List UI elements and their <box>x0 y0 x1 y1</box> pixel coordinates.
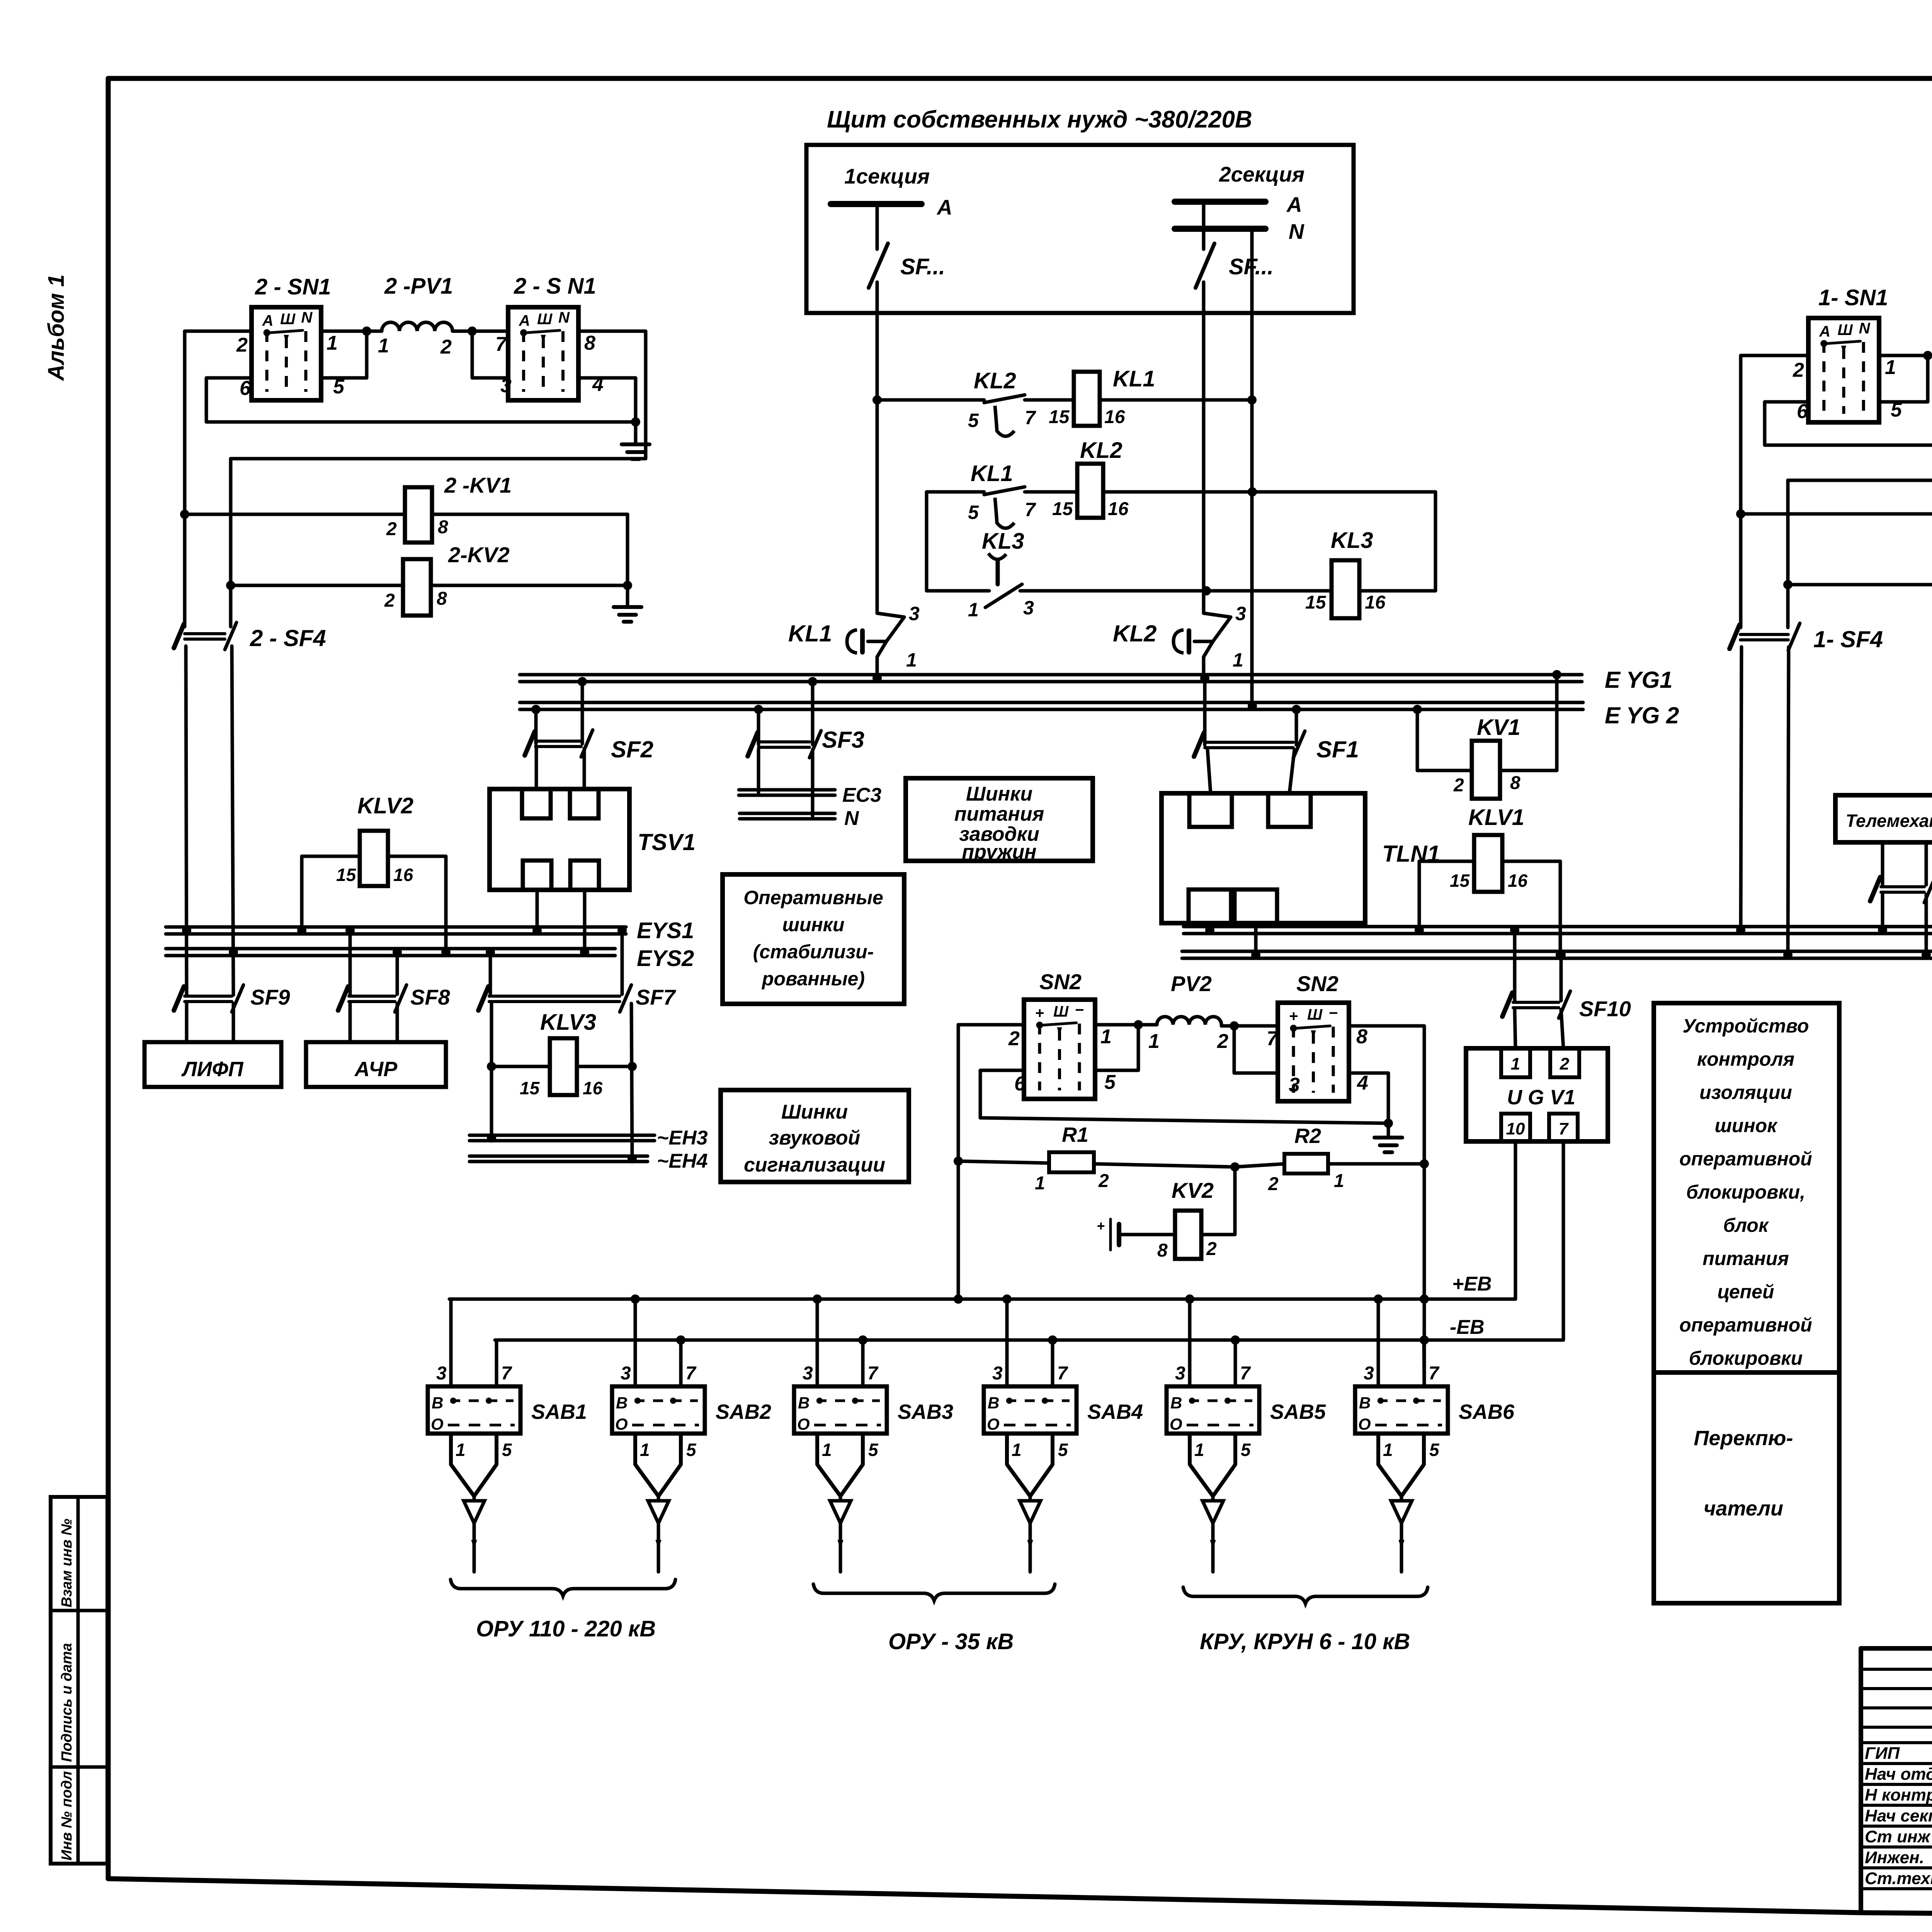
resistor R1 <box>958 1123 1235 1194</box>
node TSV1/EYS2 <box>580 947 589 957</box>
node TLN1/EYG4 <box>1251 950 1260 959</box>
resistor R2 <box>1235 1124 1424 1194</box>
brace ОРУ-35кВ <box>813 1584 1055 1654</box>
wire SAB2 pin7 feeder <box>679 1340 683 1386</box>
svg-text:16: 16 <box>1104 407 1125 427</box>
svg-text:5: 5 <box>502 1440 512 1460</box>
node SF1/EYG2 <box>1292 705 1301 714</box>
breaker SF7 <box>478 930 677 1012</box>
funnel SAB5 <box>1190 1434 1251 1572</box>
svg-text:звуковой: звуковой <box>769 1127 861 1149</box>
bus EYS2 <box>166 946 694 971</box>
wire SN2 pin2 left <box>958 1023 1024 1027</box>
wire left vertical A below SF4 <box>186 646 187 995</box>
svg-text:8: 8 <box>1356 1026 1367 1048</box>
svg-text:SF10: SF10 <box>1579 997 1631 1021</box>
funnel SAB2 <box>635 1434 697 1572</box>
svg-text:5: 5 <box>868 1440 879 1460</box>
wire left vertical B (x597) <box>229 459 233 627</box>
svg-text:+ЕВ: +ЕВ <box>1452 1273 1492 1295</box>
svg-text:Оперативные: Оперативные <box>743 887 883 908</box>
node KLV2/EYS2 <box>441 947 451 957</box>
svg-text:15: 15 <box>1052 499 1073 519</box>
note box Устройство контроля изоляции шинок оперативной блокировки <box>1654 1003 1839 1372</box>
svg-text:−: − <box>1329 1005 1338 1022</box>
svg-text:питания: питания <box>954 803 1044 825</box>
svg-text:1: 1 <box>327 332 338 354</box>
svg-text:А: А <box>519 312 530 329</box>
wire SN2 pin1 to coil <box>1095 1023 1157 1027</box>
wire SAB3 pin7 feeder <box>861 1340 865 1386</box>
load box Телемеханика <box>1835 795 1932 842</box>
svg-text:−: − <box>1075 1002 1084 1019</box>
node SF10/EYG3 <box>1510 925 1519 935</box>
svg-text:N: N <box>1289 219 1304 243</box>
svg-text:2: 2 <box>1217 1030 1228 1053</box>
wire pin2 left <box>185 330 252 333</box>
svg-text:1: 1 <box>1334 1171 1344 1191</box>
switch SAB6 <box>1355 1363 1515 1434</box>
cell symbol at KV2 <box>1097 1218 1119 1250</box>
node SN2 ground loop <box>1384 1119 1393 1128</box>
funnel SAB3 <box>817 1434 879 1572</box>
svg-text:О: О <box>797 1415 810 1433</box>
svg-text:2: 2 <box>236 334 248 356</box>
wire SAB5 pin3 feeder <box>1188 1299 1192 1386</box>
wire SF11 to EYG4 <box>1925 895 1928 955</box>
svg-text:SF1: SF1 <box>1316 736 1359 762</box>
svg-text:шинок: шинок <box>1714 1115 1778 1136</box>
svg-text:1: 1 <box>1012 1440 1022 1460</box>
svg-text:N: N <box>844 807 859 830</box>
wire pin3 loop <box>472 333 508 378</box>
svg-text:3: 3 <box>500 374 512 397</box>
svg-text:шинки: шинки <box>782 914 844 935</box>
svg-text:блокировки: блокировки <box>1689 1347 1803 1369</box>
svg-text:Ст инж: Ст инж <box>1865 1827 1931 1846</box>
wire pin1 to coil <box>321 330 382 333</box>
wire SN2 pin6/pin4 bottom loop <box>980 1070 1388 1123</box>
svg-text:Ш: Ш <box>537 311 553 328</box>
node -EB/SAB2 <box>676 1335 685 1345</box>
svg-text:EYS2: EYS2 <box>637 946 694 971</box>
svg-text:рованные): рованные) <box>761 968 865 990</box>
svg-text:3: 3 <box>909 603 920 624</box>
brace ОРУ 110-220кВ <box>451 1580 675 1641</box>
svg-text:1: 1 <box>1885 356 1896 379</box>
svg-text:SN2: SN2 <box>1296 971 1338 996</box>
wire pin8 loop <box>231 331 646 459</box>
node SF11/EYG4 <box>1922 950 1931 959</box>
wires SF8 to АЧР <box>349 1003 352 1042</box>
svg-text:Нач сект.: Нач сект. <box>1865 1806 1932 1825</box>
node KLV3/EH3 <box>487 1133 496 1143</box>
svg-text:3: 3 <box>1289 1074 1300 1096</box>
svg-text:Щит собственных нужд ~380/2: Щит собственных нужд ~380/220В <box>827 106 1252 133</box>
wire SAB1 pin7 feeder <box>495 1340 498 1386</box>
svg-text:Ш: Ш <box>1307 1006 1323 1023</box>
switch SAB5 <box>1167 1363 1326 1434</box>
svg-text:5: 5 <box>1891 399 1902 421</box>
svg-text:SF...: SF... <box>900 254 945 279</box>
wire coil to pin7 <box>452 330 508 333</box>
svg-text:7: 7 <box>1559 1119 1569 1138</box>
node +EB/SAB4 <box>1002 1294 1012 1304</box>
svg-text:SAB3: SAB3 <box>898 1400 953 1423</box>
svg-text:оперативной: оперативной <box>1679 1148 1812 1170</box>
svg-text:A: A <box>1286 192 1302 216</box>
relay 1-KV1 <box>1741 470 1932 585</box>
funnel SAB4 <box>1007 1434 1068 1572</box>
svg-text:4: 4 <box>1357 1072 1368 1094</box>
node SF2/EYG2 <box>531 705 541 714</box>
svg-text:KV1: KV1 <box>1477 715 1520 740</box>
wire left vertical B below SF4 <box>232 646 233 995</box>
svg-text:7: 7 <box>1057 1363 1068 1384</box>
svg-text:(стабилизи-: (стабилизи- <box>753 941 874 963</box>
power unit UGV1 <box>1466 1010 1608 1141</box>
wire UGV1 pin7 down <box>1562 1141 1565 1340</box>
svg-text:KL2: KL2 <box>974 368 1016 393</box>
wire pin6/pin4 bottom loop <box>206 378 636 422</box>
svg-text:О: О <box>615 1415 628 1433</box>
title block roles and names <box>1865 1744 1932 1888</box>
wire 1SN1 pin2 left <box>1741 354 1808 357</box>
svg-text:1: 1 <box>640 1440 650 1460</box>
bus ЕН4 <box>469 1150 708 1172</box>
svg-text:2: 2 <box>1098 1171 1109 1191</box>
node 1PV1 left <box>1923 351 1932 360</box>
svg-text:Ш: Ш <box>1053 1003 1069 1020</box>
node +EB/SAB6 <box>1374 1294 1383 1304</box>
wire SAB5 pin7 feeder <box>1234 1340 1237 1386</box>
svg-text:В: В <box>432 1394 443 1412</box>
bus EC3 <box>739 784 881 806</box>
node PV2 right <box>1230 1021 1239 1031</box>
svg-text:ОРУ 110 - 220 кВ: ОРУ 110 - 220 кВ <box>476 1616 656 1641</box>
svg-text:3: 3 <box>992 1363 1003 1384</box>
node SF9/EYS2 <box>229 947 238 957</box>
svg-text:2: 2 <box>386 519 397 539</box>
node -EB/SAB6 <box>1420 1335 1429 1345</box>
wire left vertical A (x478) <box>183 331 187 627</box>
svg-text:15: 15 <box>336 865 357 885</box>
row3 wire <box>927 589 1435 593</box>
selector plug SN2 right <box>1278 971 1349 1101</box>
svg-text:~ЕН3: ~ЕН3 <box>657 1127 708 1149</box>
svg-text:Ст.техн: Ст.техн <box>1865 1869 1932 1888</box>
pin labels SN2 assembly <box>1008 1026 1368 1096</box>
svg-text:15: 15 <box>1305 592 1327 613</box>
load box АЧР <box>306 1042 446 1087</box>
breaker SF... (1секция) <box>869 204 945 313</box>
svg-text:2 -PV1: 2 -PV1 <box>384 274 453 299</box>
node SF2/EYG1 <box>578 677 587 686</box>
svg-text:3: 3 <box>1175 1363 1185 1384</box>
svg-text:~ЕН4: ~ЕН4 <box>657 1150 708 1172</box>
relay KV2 <box>1119 1167 1235 1261</box>
node SF8/EYS1 <box>345 926 355 935</box>
svg-text:2 - SN1: 2 - SN1 <box>255 274 331 299</box>
svg-text:А: А <box>1819 323 1830 340</box>
svg-text:SF2: SF2 <box>611 736 653 762</box>
svg-text:ЛИФП: ЛИФП <box>181 1058 244 1081</box>
svg-text:SF8: SF8 <box>410 985 451 1009</box>
svg-text:2секция: 2секция <box>1219 162 1304 186</box>
wire SAB4 pin3 feeder <box>1005 1299 1009 1386</box>
svg-text:SF7: SF7 <box>636 985 677 1009</box>
node SF11/EYG3 <box>1878 925 1887 935</box>
svg-text:SAB5: SAB5 <box>1270 1400 1326 1423</box>
pin labels right SN assembly <box>1793 356 1932 423</box>
wire -EB <box>495 1316 1563 1340</box>
node +EB/R2vert <box>1420 1294 1429 1304</box>
pin labels left SN assembly <box>236 332 604 400</box>
svg-text:2: 2 <box>1008 1027 1020 1050</box>
svg-text:Нач отд: Нач отд <box>1865 1765 1932 1784</box>
node 1-SF4/EYG3 <box>1736 925 1745 935</box>
node 1-SF4/EYG4 <box>1783 950 1793 959</box>
svg-text:E YG 2: E YG 2 <box>1605 702 1679 728</box>
svg-text:16: 16 <box>1365 592 1386 613</box>
svg-text:3: 3 <box>803 1363 813 1384</box>
svg-text:KV2: KV2 <box>1172 1178 1214 1202</box>
svg-text:1: 1 <box>1148 1030 1160 1053</box>
svg-text:1: 1 <box>1233 649 1243 671</box>
svg-text:6: 6 <box>1797 400 1808 423</box>
node -EB/SAB4 <box>1048 1335 1057 1345</box>
node -EB/SAB3 <box>858 1335 867 1345</box>
svg-text:сигнализации: сигнализации <box>744 1154 885 1176</box>
svg-text:7: 7 <box>1267 1027 1279 1050</box>
node PV2 left <box>1134 1020 1143 1029</box>
node N/row1 <box>1247 395 1257 405</box>
wires SF9 to ЛИФП <box>185 1003 189 1042</box>
svg-text:5: 5 <box>1429 1440 1440 1460</box>
inductor 2-PV1 <box>382 274 453 331</box>
svg-text:8: 8 <box>437 588 447 609</box>
svg-text:2: 2 <box>1793 359 1804 381</box>
svg-text:Ш: Ш <box>1838 321 1853 338</box>
svg-text:-ЕВ: -ЕВ <box>1450 1316 1485 1338</box>
svg-text:KL2: KL2 <box>1113 621 1156 646</box>
relay KLV3 <box>487 1003 637 1159</box>
relay KLV2 <box>302 793 446 952</box>
node KLV3/EH4 <box>628 1154 637 1163</box>
svg-text:3: 3 <box>1364 1363 1374 1384</box>
bus 2секция A <box>1175 162 1304 216</box>
wire +EB <box>449 1273 1515 1299</box>
svg-text:5: 5 <box>1241 1440 1251 1460</box>
svg-text:7: 7 <box>1429 1363 1440 1384</box>
svg-text:1: 1 <box>906 649 917 671</box>
svg-text:5: 5 <box>968 502 979 523</box>
svg-text:R1: R1 <box>1062 1123 1088 1146</box>
svg-text:15: 15 <box>1450 871 1470 891</box>
svg-text:5: 5 <box>1104 1071 1116 1094</box>
svg-text:Инв № подл: Инв № подл <box>59 1771 75 1861</box>
svg-text:пружин: пружин <box>962 841 1036 863</box>
svg-text:7: 7 <box>867 1363 879 1384</box>
ground 2-KV loop <box>614 585 641 622</box>
node B/2-KV2 row <box>226 581 235 590</box>
svg-text:8: 8 <box>1510 773 1520 793</box>
svg-text:Н контр.: Н контр. <box>1865 1786 1932 1804</box>
load box ЛИФП <box>145 1042 281 1087</box>
note box Шинки звуковой сигнализации <box>721 1090 909 1182</box>
node SF7/EYS1 <box>617 926 627 935</box>
contact KL2 (5-7) <box>968 368 1036 436</box>
svg-text:7: 7 <box>495 333 507 355</box>
selector plug 2-SN1 left <box>252 274 331 400</box>
svg-text:Ш: Ш <box>280 311 296 328</box>
node +EB/SAB5 <box>1185 1294 1194 1304</box>
relay 2-KV2 <box>231 543 628 616</box>
svg-text:1- SF4: 1- SF4 <box>1813 626 1883 652</box>
breaker 2-SF4 <box>174 622 326 651</box>
svg-text:Перекпю-: Перекпю- <box>1694 1427 1793 1450</box>
node -EB/SAB5 <box>1231 1335 1240 1345</box>
wire SN2 pin8 right <box>1349 1026 1424 1164</box>
wire SF3 to EC3 <box>757 750 760 793</box>
node feeder1/row1 <box>872 395 882 405</box>
svg-text:KL3: KL3 <box>1331 528 1373 553</box>
svg-text:В: В <box>1170 1394 1182 1412</box>
svg-text:КРУ, КРУН 6 - 10 кВ: КРУ, КРУН 6 - 10 кВ <box>1200 1629 1410 1654</box>
ground left assembly <box>622 422 650 459</box>
wire SAB3 pin3 feeder <box>816 1299 819 1386</box>
svg-text:6: 6 <box>1014 1073 1026 1095</box>
node N/EYG2 <box>1248 701 1257 711</box>
svg-text:2: 2 <box>1268 1174 1279 1194</box>
svg-text:1: 1 <box>1100 1026 1112 1048</box>
svg-text:EYS1: EYS1 <box>637 918 694 943</box>
breaker SF10 <box>1502 930 1631 1021</box>
svg-text:изоляции: изоляции <box>1699 1082 1792 1103</box>
wire right vertical A (x4505) <box>1739 355 1743 628</box>
node A/2-KV1 row <box>180 510 189 519</box>
node +EB/SAB3 <box>813 1294 822 1304</box>
wire TLN1 to EYG4 <box>1254 923 1258 955</box>
svg-text:KL1: KL1 <box>971 461 1013 486</box>
relay 2-KV1 <box>185 473 628 585</box>
svg-text:1: 1 <box>822 1440 832 1460</box>
node TSV1/EYS1 <box>532 926 542 935</box>
svg-text:1: 1 <box>378 335 389 357</box>
svg-text:Альбом 1: Альбом 1 <box>44 274 69 381</box>
svg-text:Телемеханика: Телемеханика <box>1846 811 1932 831</box>
wire right vertical B (x4627) <box>1786 480 1790 628</box>
row1 wire <box>877 398 1252 402</box>
relay coil KL3 <box>1305 528 1386 618</box>
svg-text:1: 1 <box>456 1440 466 1460</box>
wire feeder N down <box>1250 229 1254 709</box>
title block grid <box>1861 1648 1932 1916</box>
selector plug 1-SN1 left <box>1808 285 1888 422</box>
svg-text:2-KV2: 2-KV2 <box>448 543 510 567</box>
wire SAB2 pin3 feeder <box>634 1299 637 1386</box>
svg-text:1секция: 1секция <box>844 164 930 188</box>
relay 1-KV2 <box>1788 545 1932 613</box>
bus EYG1 <box>520 667 1673 693</box>
svg-text:R2: R2 <box>1294 1124 1321 1148</box>
selector plug SN2 left <box>1024 969 1095 1099</box>
node SF8/EYS2 <box>393 947 402 957</box>
bus EYS1 <box>166 918 694 943</box>
svg-text:SAB1: SAB1 <box>531 1400 587 1423</box>
svg-text:А: А <box>262 312 274 329</box>
node KL1/EYG1 <box>872 673 882 683</box>
svg-text:N: N <box>558 309 570 326</box>
svg-text:2: 2 <box>440 336 452 358</box>
svg-text:2 - SF4: 2 - SF4 <box>250 625 326 651</box>
wire feeder 2секция phase down <box>1202 313 1206 613</box>
wire 1SN1 pin6/pin4 bottom loop <box>1765 402 1932 445</box>
relay KLV1 <box>1419 805 1560 955</box>
switch SAB3 <box>794 1363 953 1434</box>
wire 1SN1 pin1 to coil <box>1879 354 1932 357</box>
brace КРУ КРУН 6-10кВ <box>1183 1587 1428 1654</box>
svg-text:+: + <box>1035 1005 1044 1022</box>
svg-text:15: 15 <box>1049 407 1070 427</box>
bus EYG4 <box>1182 951 1932 990</box>
svg-text:PV2: PV2 <box>1171 971 1212 996</box>
node KLV1/EYG3 <box>1415 925 1424 935</box>
svg-text:8: 8 <box>584 332 595 354</box>
selector plug 2-SN1 right <box>508 274 596 400</box>
node row3 / KL2-feeder <box>1202 586 1211 595</box>
svg-text:питания: питания <box>1702 1248 1789 1269</box>
svg-text:SAB6: SAB6 <box>1459 1400 1515 1423</box>
svg-text:KL1: KL1 <box>1113 366 1155 391</box>
svg-text:ОРУ - 35 кВ: ОРУ - 35 кВ <box>888 1629 1014 1654</box>
contact KL1 main <box>788 603 920 678</box>
bus EYG3 <box>1184 926 1932 951</box>
svg-text:1- SN1: 1- SN1 <box>1818 285 1888 310</box>
svg-text:KL3: KL3 <box>982 529 1024 554</box>
wire 1SN1 pin8 loop <box>1788 355 1932 480</box>
svg-text:A: A <box>936 195 952 219</box>
svg-text:16: 16 <box>393 865 413 885</box>
node KL2/EYG1 <box>1200 673 1209 683</box>
svg-text:N: N <box>301 309 313 326</box>
node +EB/SN2 <box>954 1294 963 1304</box>
relay KV1 <box>1417 675 1557 799</box>
contact KL1 (5-7) <box>968 461 1036 528</box>
note box Шинки питания заводки пружин <box>906 778 1093 863</box>
svg-text:16: 16 <box>1508 871 1528 891</box>
svg-text:цепей: цепей <box>1717 1281 1774 1303</box>
svg-text:2: 2 <box>1560 1054 1570 1073</box>
svg-text:SF3: SF3 <box>822 727 864 753</box>
svg-text:SAB4: SAB4 <box>1087 1400 1143 1423</box>
wire pin8 vertical to SAB6 <box>1423 1164 1426 1386</box>
svg-text:10: 10 <box>1506 1119 1525 1138</box>
svg-text:1: 1 <box>1035 1173 1045 1194</box>
svg-text:В: В <box>616 1394 628 1412</box>
svg-text:TSV1: TSV1 <box>638 829 696 855</box>
node B/1-KV2 row <box>1783 580 1793 589</box>
bus 1секция A <box>831 164 952 219</box>
svg-text:U G V1: U G V1 <box>1507 1086 1575 1109</box>
wire pin5 loop <box>321 333 367 378</box>
svg-text:2: 2 <box>384 590 395 611</box>
svg-text:Шинки: Шинки <box>781 1101 848 1123</box>
relay coil KL2 <box>1052 438 1129 519</box>
transformer TLN1 <box>1162 750 1440 923</box>
bus N <box>740 807 859 830</box>
svg-text:3: 3 <box>621 1363 631 1384</box>
